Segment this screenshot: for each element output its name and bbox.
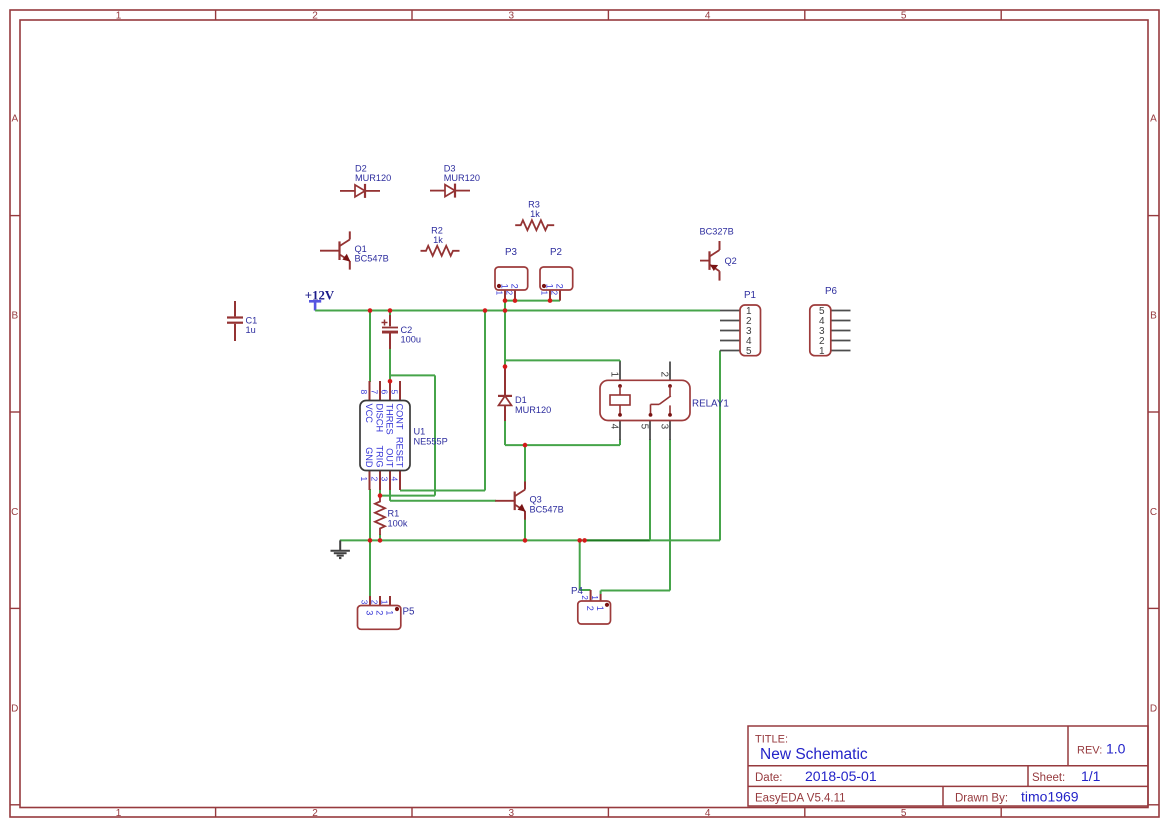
svg-text:Drawn By:: Drawn By:: [955, 792, 1008, 804]
wire +12V rail: [315, 310, 720, 312]
svg-text:Q1: Q1: [355, 244, 367, 254]
svg-text:2: 2: [504, 291, 513, 296]
svg-text:1: 1: [500, 284, 510, 289]
svg-text:1: 1: [539, 291, 548, 296]
connector P3: [504, 290, 506, 301]
svg-text:NE555P: NE555P: [414, 437, 448, 447]
relay RELAY1 pin stubs: [619, 362, 621, 381]
svg-text:1/1: 1/1: [1081, 768, 1101, 784]
svg-text:Q2: Q2: [725, 256, 737, 266]
svg-text:timo1969: timo1969: [1021, 788, 1079, 804]
wire rail to P4 pin2 seg2: [580, 589, 591, 591]
svg-text:5: 5: [390, 390, 400, 395]
svg-text:BC547B: BC547B: [530, 505, 564, 515]
wire U1 pin3 to Q3 base seg2: [390, 500, 496, 502]
connector P1: [720, 310, 740, 312]
wire P3 P2 link: [505, 300, 560, 302]
diode D3: [430, 190, 445, 192]
title block DrawnBy divider: [942, 786, 944, 806]
svg-text:C: C: [1150, 507, 1157, 518]
wire Q3 emitter to rail: [524, 519, 526, 540]
svg-text:RESET: RESET: [394, 437, 404, 468]
svg-text:1: 1: [494, 291, 503, 296]
svg-text:A: A: [1150, 114, 1157, 125]
svg-text:8: 8: [359, 390, 369, 395]
wire RESET to rail seg2: [484, 311, 486, 491]
svg-text:4: 4: [390, 477, 400, 482]
relay RELAY1 switch: [668, 384, 672, 388]
ruler tick marks top/bottom: [215, 10, 217, 20]
svg-text:1k: 1k: [530, 209, 540, 219]
svg-text:VCC: VCC: [364, 404, 374, 424]
svg-text:6: 6: [380, 390, 390, 395]
svg-text:C1: C1: [246, 315, 258, 325]
svg-text:P4: P4: [571, 586, 584, 597]
svg-text:4: 4: [705, 10, 711, 21]
wire U1 pin3 to Q3 base seg1: [389, 489, 391, 501]
svg-text:P6: P6: [825, 286, 838, 297]
svg-text:Sheet:: Sheet:: [1032, 772, 1065, 784]
svg-text:C: C: [11, 507, 18, 518]
resistor R3: [515, 220, 554, 230]
connector P2: [549, 290, 551, 301]
svg-text:3: 3: [380, 477, 390, 482]
svg-text:BC547B: BC547B: [355, 253, 389, 263]
svg-text:D: D: [1150, 703, 1157, 714]
svg-text:MUR120: MUR120: [444, 173, 480, 183]
svg-text:U1: U1: [414, 427, 426, 437]
svg-text:C2: C2: [401, 325, 413, 335]
svg-text:3: 3: [509, 10, 515, 21]
svg-text:1: 1: [545, 284, 555, 289]
transistor Q3: [495, 500, 515, 502]
svg-text:2: 2: [375, 610, 385, 615]
op-amp U1 body: [360, 401, 410, 471]
svg-text:R3: R3: [528, 199, 540, 209]
svg-text:2: 2: [312, 808, 318, 819]
transistor Q2: [700, 260, 710, 262]
svg-text:P5: P5: [403, 606, 416, 617]
svg-text:A: A: [11, 114, 18, 125]
svg-text:REV:: REV:: [1077, 745, 1102, 757]
wire GND rail overlap dark segment: [585, 539, 650, 541]
svg-text:3: 3: [359, 600, 368, 605]
svg-text:Date:: Date:: [755, 772, 783, 784]
svg-text:1u: 1u: [246, 325, 256, 335]
wire rail to P4 pin2 seg1: [579, 540, 581, 590]
junction dots U1/D1/Q3 nodes: [388, 379, 393, 384]
junction dots on GND rail: [368, 538, 373, 543]
wire U1 pin2 stub link: [379, 489, 381, 496]
svg-text:P2: P2: [550, 247, 562, 258]
svg-text:BC327B: BC327B: [700, 227, 734, 237]
title block row divider 2: [748, 785, 1148, 787]
wire D1 bottom seg1: [504, 420, 506, 445]
svg-text:100u: 100u: [401, 335, 421, 345]
svg-text:B: B: [11, 310, 18, 321]
wire Q3 collector up: [524, 445, 526, 482]
svg-text:D: D: [11, 703, 18, 714]
wire RESET to rail seg1: [400, 490, 485, 492]
diode D2: [340, 190, 355, 192]
svg-text:D1: D1: [515, 395, 527, 405]
wire D1 node to RELAY pin1: [505, 359, 620, 361]
wire rail to U1 pin8: [369, 311, 371, 383]
wire RELAY pin5 down: [649, 439, 651, 540]
svg-text:2: 2: [659, 371, 670, 377]
ground: [339, 540, 341, 550]
title block outline: [748, 726, 1148, 806]
wire R1 bottom to rail: [379, 534, 381, 540]
svg-text:2: 2: [549, 291, 558, 296]
svg-text:7: 7: [370, 390, 380, 395]
capacitor C1: [234, 301, 236, 316]
svg-text:MUR120: MUR120: [515, 405, 551, 415]
op-amp U1 pin stubs: [369, 381, 371, 400]
wire RELAY pin3 to P4 pin1: [601, 590, 670, 592]
svg-text:P1: P1: [744, 290, 756, 301]
wire rail to D1 top: [504, 311, 506, 368]
svg-text:1: 1: [359, 477, 369, 482]
svg-text:GND: GND: [364, 447, 374, 468]
svg-text:1: 1: [819, 346, 825, 357]
title block row divider 1: [748, 765, 1148, 767]
svg-text:New Schematic: New Schematic: [760, 746, 868, 763]
resistor R2: [421, 246, 460, 256]
title block Sheet divider: [1027, 766, 1029, 787]
svg-text:THRES: THRES: [384, 404, 394, 435]
svg-text:1k: 1k: [433, 235, 443, 245]
transistor Q1: [320, 250, 340, 252]
diode D1: [504, 367, 506, 396]
svg-text:MUR120: MUR120: [355, 173, 391, 183]
svg-text:2: 2: [370, 477, 380, 482]
svg-text:100k: 100k: [388, 519, 408, 529]
svg-text:1: 1: [379, 600, 388, 605]
svg-text:2: 2: [510, 284, 520, 289]
svg-text:2: 2: [369, 600, 378, 605]
svg-text:1: 1: [116, 10, 122, 21]
wire THRES to TRIG seg1: [390, 374, 435, 376]
svg-text:2018-05-01: 2018-05-01: [805, 768, 877, 784]
svg-text:2: 2: [555, 284, 565, 289]
connector P5: [369, 596, 371, 606]
svg-text:RELAY1: RELAY1: [692, 398, 729, 409]
svg-text:1: 1: [116, 808, 122, 819]
svg-text:OUT: OUT: [384, 448, 394, 468]
svg-text:B: B: [1150, 310, 1157, 321]
wire rail to C2 top: [389, 311, 391, 316]
svg-text:1.0: 1.0: [1106, 741, 1126, 757]
capacitor C2 plus sign: [382, 322, 388, 324]
junction dots P3 P2 net: [503, 298, 508, 303]
capacitor C2: [389, 313, 391, 326]
svg-text:4: 4: [705, 808, 711, 819]
svg-text:5: 5: [901, 10, 907, 21]
svg-text:DISCH: DISCH: [374, 404, 384, 433]
wire P3 pin1 to rail: [504, 301, 506, 311]
resistor R1: [375, 496, 385, 535]
wire RELAY pin3 down seg1: [669, 439, 671, 591]
svg-text:1: 1: [385, 610, 395, 615]
svg-text:5: 5: [639, 424, 650, 430]
svg-text:1: 1: [609, 371, 620, 377]
wire P2 pin2 drop: [559, 294, 561, 301]
svg-text:4: 4: [609, 424, 620, 430]
wire C2 bottom to U1 pin6: [389, 349, 391, 382]
title block REV divider: [1067, 726, 1069, 766]
svg-text:P3: P3: [505, 247, 518, 258]
svg-text:3: 3: [509, 808, 515, 819]
wire THRES to TRIG seg3: [380, 495, 436, 497]
svg-text:CONT: CONT: [394, 404, 404, 430]
svg-text:5: 5: [901, 808, 907, 819]
svg-text:1: 1: [590, 595, 599, 600]
connector P4: [590, 590, 592, 601]
connector P6: [831, 310, 851, 312]
svg-text:EasyEDA V5.4.11: EasyEDA V5.4.11: [755, 792, 846, 804]
wire P1 pin5 down seg2: [650, 539, 720, 541]
relay RELAY1 coil: [618, 384, 622, 388]
svg-text:R1: R1: [388, 509, 400, 519]
svg-text:1: 1: [595, 606, 605, 611]
wire U1 pin1 to P5 pin3: [369, 489, 371, 597]
relay RELAY1 body: [600, 380, 690, 420]
junction dots on +12V rail: [368, 308, 373, 313]
svg-text:3: 3: [659, 424, 670, 430]
svg-text:D2: D2: [355, 163, 367, 173]
wire D1 bottom to RELAY pin4: [505, 444, 620, 446]
wire THRES to TRIG seg2: [434, 375, 436, 495]
svg-text:D3: D3: [444, 163, 456, 173]
svg-text:2: 2: [312, 10, 318, 21]
svg-text:5: 5: [746, 346, 752, 357]
wire GND rail: [340, 539, 650, 541]
svg-text:3: 3: [365, 610, 375, 615]
svg-text:2: 2: [585, 606, 595, 611]
svg-text:TITLE:: TITLE:: [755, 734, 788, 746]
svg-text:Q3: Q3: [530, 495, 542, 505]
wire P1 pin5 down seg1: [719, 351, 721, 541]
svg-text:TRIG: TRIG: [374, 446, 384, 468]
ruler tick marks left/right: [10, 215, 20, 217]
